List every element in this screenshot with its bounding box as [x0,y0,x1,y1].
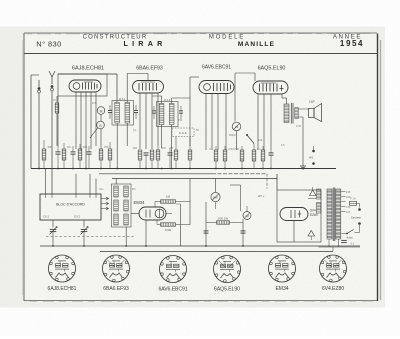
wire: IF1 bottoms [116,123,118,169]
band switch contact A [97,107,105,115]
wire: antenna lead down to tuner block [51,91,53,194]
resistor R12 [214,150,218,161]
wire: AVC leads [175,137,177,150]
transformer filament winding 1 [317,189,321,199]
wire: EM34 grid lead [131,213,139,215]
coil L2 winding 3 [124,214,128,225]
capacitor C12 [241,230,246,232]
tuning capacitor CV1 [52,220,54,228]
wire: V3 plate coupling to V4 [235,72,255,74]
heater bus 2 [100,251,333,253]
capacitor C5 [56,151,61,153]
wire: T2 secondary to V3 grid [171,98,173,104]
power transformer core [332,188,334,242]
wire: P3 leads [246,206,248,211]
IF transformer T2 secondary [169,104,174,125]
socket V1 base diagram [49,255,76,282]
rectifier enclosure [277,190,321,242]
heater bus 1 [40,245,360,247]
tube V1 shield box [58,74,107,96]
fuse F1 [350,201,357,205]
tube V4 electrodes [259,84,261,92]
capacitor C8 [144,152,149,154]
wire: bus to tuner pins [45,169,47,195]
capacitor C9 [168,152,173,154]
chassis symbol top [310,190,317,196]
potentiometer P1 volume [232,122,241,131]
IF transformer T1 primary [115,103,120,124]
resistor R8 [150,150,154,160]
tube V5 electrodes [145,210,147,218]
chassis symbol bottom [308,231,315,237]
wire: T2 bottoms [161,125,163,149]
coil L2 winding 1 [124,186,128,197]
resistor R3 [62,149,66,160]
capacitor C4 IF2 right [179,110,183,112]
speaker [309,109,315,118]
output transformer T3 secondary [295,108,298,119]
resistor R16 [261,150,265,161]
wire: secondary to speaker [299,108,309,110]
antenna terminal [51,85,54,88]
capacitor C11 [204,230,209,232]
resistor R19 [217,221,230,224]
output transformer T3 primary [284,104,289,123]
tube V6 electrodes [290,210,292,218]
resistor R17 EM34 [161,200,176,203]
speaker terminal 2 [312,162,315,165]
resistor R14 [240,150,244,161]
potentiometer P3 [243,212,251,220]
wire: V3 pin leads down [205,94,207,151]
AVC filter dashed box [172,128,194,137]
speaker terminal 1 [312,150,315,153]
wire: lower verticals [180,204,182,246]
capacitor C10 [269,152,274,154]
potentiometer P2 [211,192,220,201]
tube V5 EM34 envelope [139,207,166,220]
wire: V4 plate to output transformer [281,94,283,98]
switch interrupteur [359,225,361,233]
mains terminal 1 [357,202,360,204]
capacitor C13 mains [341,239,347,241]
socket V3 base diagram [160,256,187,283]
tube V2 envelope [133,81,164,94]
socket V6 base diagram [320,255,347,282]
wire: frame aerial vertical [30,75,32,169]
resistor R18 EM34 [161,223,176,226]
switch on P1 [247,135,254,144]
wire: P2 leads [215,179,217,193]
bus wire 2 [99,173,212,175]
capacitor C3 IF2 left [152,110,156,112]
junction dots on heater bus [52,245,54,247]
tuning capacitor CV2 [83,220,85,228]
wire: V1 pin leads down [75,92,77,149]
socket V4 base diagram [214,256,241,283]
tuner block pin marks [45,194,47,198]
tube V1 electrodes [82,83,84,90]
gang coupling dashed line [46,236,136,238]
power transformer secondary winding [336,189,341,239]
resistor R15 [252,150,256,161]
wire: EM34 cathode down [145,220,147,246]
resistor R2 [42,149,46,160]
resistor R13 [223,150,227,161]
coil L1 winding 2 [114,200,118,211]
tuner output arrows [101,197,109,200]
power transformer TR primary winding [327,189,332,239]
IF transformer T2 can [157,102,179,127]
socket V2 base diagram [103,255,130,282]
tube V3 electrodes [213,83,215,91]
mains voltage taps [341,191,345,193]
wire: switch leads [100,114,102,121]
wire: heater leads [230,184,241,186]
band switch contact B [97,121,105,129]
socket V5 base diagram [269,255,296,282]
resistor R5 [99,149,103,160]
tuner block BLOC D ACCORD [40,194,101,220]
wire: V1 screen lead [57,96,59,146]
capacitor C6 [71,151,76,153]
coil L1 winding 1 [114,186,118,197]
IF transformer T1 can [112,101,134,126]
tube V1 envelope [69,80,101,92]
tube V4 envelope [253,81,288,94]
wire: EM34 supply [189,179,191,225]
wire: coil bottom lead [125,227,127,246]
earth terminal [38,87,41,90]
resistor R4 [78,149,82,160]
IF transformer T2 primary [159,104,164,125]
IF transformer T1 secondary [125,103,130,124]
wire: transformer bottom [319,246,361,248]
tube V3 envelope [199,81,234,94]
wire: rectifier output [293,221,295,243]
tube V2 electrodes [138,83,140,91]
tube V3 diode-triode [204,84,211,91]
resistor R7 [138,150,142,160]
resistor R9 [156,150,160,160]
resistor R1 antenna [55,103,59,113]
wire: V1 plate line to IF1 [58,73,117,75]
tube V1 triode section [73,83,80,90]
wire: V4 pin leads down [257,94,259,150]
wire: HT line [112,178,277,180]
coil L1 winding 3 [114,214,118,225]
resistor R10 [174,150,178,160]
chassis ground at speaker return [300,165,306,167]
wire: earth lead down [38,93,40,169]
wire: IF1 secondary to V2 grid [126,74,128,103]
coil L2 winding 2 [124,200,128,211]
oscillator coil assembly box [112,184,132,227]
antenna [49,71,55,84]
junction dots on chassis bus [38,168,40,170]
capacitor C2 IF1 right [134,109,138,111]
wire: P1 wiper down [236,131,238,150]
output transformer T3 core [290,103,292,124]
resistor R6 [108,149,112,160]
chassis bus [31,168,336,170]
transformer filament winding 2 [317,203,321,214]
tube V5 eye target [155,209,164,218]
capacitor C1 IF1 left [108,109,112,111]
mains terminal 2 [358,222,361,225]
capacitor C7 [87,151,92,153]
resistor R11 [188,150,192,160]
wire: T2 primary top [161,96,163,104]
wire: V2 pin leads down [139,93,141,149]
tube V6 6V4/EZ80 envelope [280,208,308,221]
wire: coil top lead [115,179,117,185]
